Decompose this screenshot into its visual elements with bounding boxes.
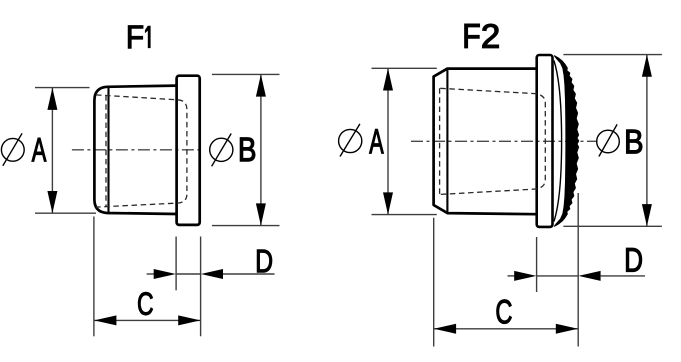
dim C F2 extension line left <box>433 218 435 347</box>
dim ØB F2 arrowhead down <box>642 204 652 226</box>
label ØA F2 diameter symbol <box>339 124 362 157</box>
label F1 <box>128 26 150 48</box>
dim C/D F1 extension line right <box>200 237 202 337</box>
dim ØA F2 arrowhead down <box>383 192 393 214</box>
label ØB F1 diameter symbol <box>210 134 233 167</box>
dim ØA F2 extension line top <box>372 67 437 69</box>
dim ØA F1 arrowhead down <box>47 191 57 213</box>
dim ØB F1 extension line bottom <box>212 225 280 227</box>
cavity F2 hidden left wall (dashed) <box>439 88 441 194</box>
dim C F1 extension line left <box>93 217 95 337</box>
label ØB F2 diameter symbol <box>597 124 620 156</box>
label D F2 <box>626 248 641 271</box>
dim C F2 arrowhead right-pointing <box>556 324 578 334</box>
dim D F1 extension line left <box>175 237 177 291</box>
dim ØB F1 arrowhead down <box>256 203 266 225</box>
dim ØB F2 dimension line <box>646 55 648 226</box>
dim ØB F2 extension line top <box>563 54 662 56</box>
dome F2 inner silhouette arc <box>554 61 562 222</box>
label B F2 <box>627 130 642 153</box>
label B F1 <box>240 138 255 161</box>
body F1 outline <box>94 86 176 214</box>
flange F2 <box>537 55 553 227</box>
dim ØA F1 arrowhead up <box>47 88 57 110</box>
cavity F1 hidden left wall (dashed) <box>105 95 107 207</box>
label C F2 <box>497 300 512 324</box>
dim D F2 dimension line tail left <box>508 275 516 277</box>
dim C/D F2 extension line right <box>577 193 579 347</box>
dim ØB F2 extension line bottom <box>563 225 662 227</box>
dim D F2 extension line left <box>536 237 538 292</box>
label A F1 <box>32 138 46 161</box>
centerline F1 <box>72 149 203 151</box>
dim ØA F2 arrowhead up <box>383 68 393 90</box>
cavity F2 hidden outline (dashed) <box>440 88 545 194</box>
label F2 <box>465 24 499 48</box>
body F1 nose tangent line <box>107 87 109 213</box>
dim ØA F2 extension line bottom <box>372 214 437 216</box>
label ØA F1 diameter symbol <box>1 133 24 166</box>
dim ØB F1 extension line top <box>212 73 280 75</box>
dim ØA F1 extension line top <box>35 87 90 89</box>
centerline F2 <box>411 140 598 142</box>
label D F1 <box>257 250 272 272</box>
cavity F1 hidden outline (dashed) <box>96 95 187 207</box>
dim C F1 arrowhead right-pointing <box>178 315 200 325</box>
dim ØA F1 extension line bottom <box>35 212 96 214</box>
flange F1 <box>177 76 200 225</box>
dim ØA F2 dimension line <box>387 69 389 215</box>
dim C F2 dimension line <box>434 328 578 330</box>
dome F2 serrated black band <box>554 56 579 227</box>
dim C F1 dimension line <box>94 319 200 321</box>
dim D F2 arrowhead right-pointing <box>514 271 536 281</box>
dim ØA F1 dimension line <box>51 88 53 213</box>
label A F2 <box>369 129 383 153</box>
dim ØB F1 arrowhead up <box>256 74 266 96</box>
dim D F2 dimension line tail right <box>601 275 645 277</box>
body F2 outline (chamfered) <box>434 69 537 215</box>
label C F1 <box>138 292 153 315</box>
dim D F2 arrowhead left-pointing <box>578 271 600 281</box>
dim D F1 arrowhead right-pointing <box>154 269 176 279</box>
dim ØB F2 arrowhead up <box>642 55 652 77</box>
dim D F1 dimension line tail left <box>147 273 155 275</box>
body F2 nose tangent line <box>446 69 448 214</box>
dim D F1 arrowhead left-pointing <box>201 269 223 279</box>
dim D F2 dimension line middle <box>537 275 579 277</box>
dim C F2 arrowhead left-pointing <box>434 324 456 334</box>
dim D F1 dimension line tail right <box>223 273 275 275</box>
dim D F1 dimension line middle <box>176 273 201 275</box>
dim C F1 arrowhead left-pointing <box>94 315 116 325</box>
dim ØB F1 dimension line <box>260 75 262 226</box>
